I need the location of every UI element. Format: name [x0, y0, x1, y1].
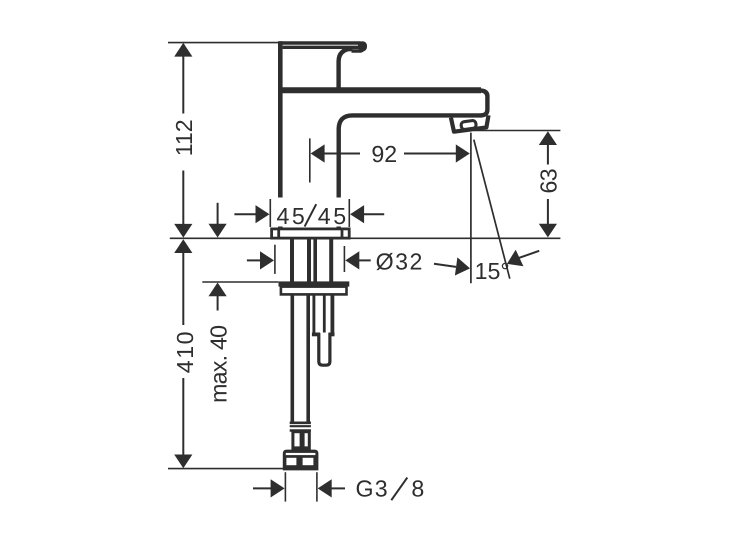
- dim 45/45 extension lines: [269, 199, 271, 227]
- svg-text:92: 92: [371, 141, 397, 167]
- dim max40 arrows: [217, 203, 219, 226]
- 15deg arrow left: [519, 251, 540, 258]
- spout right edge: [480, 90, 487, 115]
- compression fitting: [293, 432, 309, 450]
- top extension line: [168, 42, 281, 44]
- handle lever tip fill: [358, 41, 367, 51]
- dim O32 arrows: [247, 259, 261, 261]
- threaded rod: [312, 294, 315, 332]
- shank verticals: [290, 239, 294, 282]
- dim 112 line: [182, 44, 184, 114]
- svg-text:45: 45: [318, 203, 349, 229]
- dim 92 line: [311, 144, 325, 162]
- svg-text:3: 3: [375, 476, 388, 502]
- handle lever top: [279, 43, 364, 51]
- svg-text:Ø32: Ø32: [376, 249, 424, 275]
- 63 extension line: [474, 130, 560, 132]
- svg-text:112: 112: [171, 119, 197, 156]
- text 45/45 background: [273, 198, 348, 227]
- counter reference line: [170, 237, 561, 239]
- svg-text:8: 8: [411, 476, 424, 502]
- dim G3/8 extension lines: [284, 472, 286, 501]
- ferrule: [290, 421, 311, 424]
- bottom extension line (410 end): [168, 468, 283, 470]
- svg-text:G: G: [356, 476, 374, 502]
- spout underside and column right edge: [339, 115, 482, 227]
- supply pipe: [290, 294, 294, 422]
- 15deg arrow right: [434, 264, 456, 267]
- svg-text:45: 45: [277, 203, 308, 229]
- slanted 15deg line: [474, 140, 510, 279]
- rod stub: [319, 333, 330, 365]
- dim 410 line: [182, 245, 184, 325]
- handle inner line: [283, 46, 359, 49]
- dim 92 extension line: [309, 138, 311, 182]
- svg-text:63: 63: [535, 169, 561, 193]
- max40 lower extension line: [202, 281, 278, 283]
- vertical ref line at aerator: [470, 133, 472, 284]
- escutcheon: [272, 229, 350, 238]
- rod shoulder: [312, 332, 320, 336]
- dim 63: [547, 133, 549, 165]
- faucet left edge: [278, 41, 283, 227]
- dim G3/8 arrows: [253, 487, 272, 489]
- handle curve and stem: [339, 48, 353, 88]
- svg-text:max. 40: max. 40: [205, 326, 231, 403]
- aerator: [451, 115, 489, 131]
- svg-text:410: 410: [172, 330, 198, 373]
- body top: [278, 87, 481, 93]
- flange: [279, 281, 350, 286]
- nut G3/8: [283, 450, 319, 471]
- aerator outlet: [461, 120, 477, 130]
- dim O32 extension lines: [274, 245, 276, 274]
- dim 45/45 arrows: [234, 213, 256, 215]
- svg-text:15°: 15°: [475, 258, 510, 284]
- handle tip underside: [349, 49, 361, 51]
